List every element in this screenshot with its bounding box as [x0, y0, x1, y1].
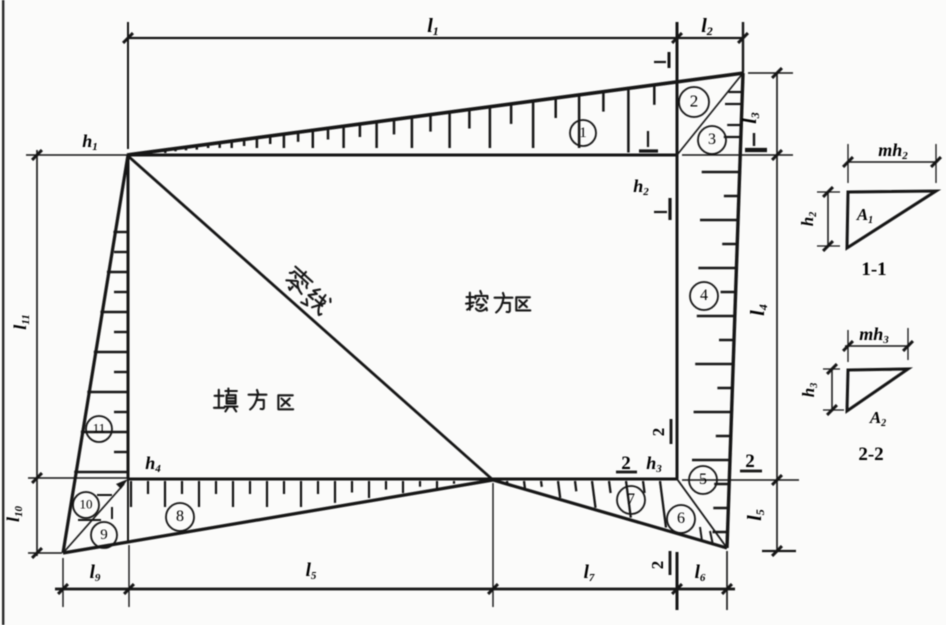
extension line x=63 bottom — [62, 558, 64, 607]
svg-text:l6: l6 — [695, 562, 706, 584]
extension line y=553 left — [28, 552, 62, 554]
zone circle 9 — [91, 522, 117, 548]
svg-text:l5: l5 — [744, 509, 767, 521]
zone circle 6 — [667, 505, 695, 533]
zone circle 3 — [698, 126, 726, 154]
label l10 — [3, 505, 25, 522]
scan border left — [2, 0, 4, 625]
extension line y=551 right — [762, 550, 796, 552]
svg-text:l5: l5 — [306, 560, 317, 582]
ticks on right dimension line — [772, 68, 782, 556]
graded rectangle top edge — [128, 154, 677, 157]
svg-text:6: 6 — [677, 510, 685, 527]
svg-text:h3: h3 — [646, 453, 662, 475]
svg-text:l4: l4 — [747, 304, 770, 316]
ticks on bottom dimension line — [58, 584, 732, 594]
svg-text:3: 3 — [708, 131, 716, 148]
section mark 1 (below h2) — [654, 198, 670, 220]
svg-text:l11: l11 — [10, 314, 32, 329]
zone circle 4 — [690, 282, 718, 310]
section mark 1 (right of top-right corner) — [745, 133, 767, 150]
section detail 1-1 triangle A1 — [847, 191, 936, 248]
extension line x=128 top — [127, 22, 129, 149]
slope hatching zone 1 (top slope) — [146, 86, 654, 156]
svg-text:11: 11 — [93, 420, 106, 435]
svg-text:2: 2 — [649, 428, 668, 437]
svg-text:10: 10 — [80, 496, 93, 511]
slope hatching zone 8 (bottom slope left of zero point) — [131, 481, 454, 507]
graded rectangle right edge — [676, 155, 679, 479]
extension line y=478 left — [28, 477, 127, 479]
extension line y=73 right — [748, 72, 793, 74]
slope hatching zone 6 — [700, 527, 713, 545]
section mark 2 (rotated, above h3) — [649, 419, 671, 444]
left edge extension to toe line — [127, 479, 129, 542]
dimension mh3 — [843, 328, 913, 362]
zone circle 1 — [570, 120, 596, 146]
zone circle 11 — [86, 416, 112, 442]
svg-text:1: 1 — [579, 125, 587, 141]
outer slope toe: right edge — [727, 73, 743, 548]
dimension line l9/l5/l7/l6 (bottom) — [55, 588, 735, 591]
svg-text:h2: h2 — [633, 176, 649, 198]
text 挖方区 (cut area) — [466, 291, 530, 312]
dimension mh2 — [843, 144, 941, 183]
svg-text:2-2: 2-2 — [858, 444, 883, 465]
slope hatching zone 3 (upper right slope) — [724, 92, 742, 137]
svg-text:l2: l2 — [701, 15, 713, 38]
svg-text:l7: l7 — [584, 562, 595, 584]
section detail 2-2 triangle A2 — [847, 369, 908, 411]
section mark 2 (right, near l5) — [740, 451, 762, 472]
zone circle 8 — [166, 503, 194, 531]
section mark 2 (left of h3) — [616, 453, 637, 474]
slope hatching zone 9 — [111, 507, 113, 519]
divider bottom-right corner (zone 5/6) — [677, 479, 727, 548]
svg-text:mh2: mh2 — [878, 140, 908, 162]
outer slope toe: left edge — [63, 155, 128, 553]
svg-text:5: 5 — [699, 471, 707, 488]
extension line y=155 left (h1 underline) — [26, 154, 127, 156]
extension line x=743 top — [742, 22, 744, 72]
dimension line l11/l10 (left) — [36, 150, 38, 556]
divider bottom-left corner with arrow (zone 10/9) — [63, 484, 124, 553]
label h2 rotated (1-1 detail) — [798, 212, 819, 226]
graded rectangle left edge — [127, 155, 130, 479]
svg-text:8: 8 — [176, 508, 184, 525]
extension line y=480 right — [682, 479, 799, 481]
zone circle 10 — [73, 492, 99, 518]
slope hatching zones 4 and 5 (right slope) — [692, 172, 739, 532]
svg-text:h4: h4 — [145, 453, 161, 475]
label l5 right — [744, 509, 767, 521]
extension line x=493 bottom — [492, 483, 494, 607]
section mark 2 (rotated, bottom) — [648, 551, 670, 575]
section mark 1 (below top-right corner) — [639, 131, 658, 151]
svg-text:h1: h1 — [82, 131, 98, 153]
graded rectangle bottom edge — [127, 478, 678, 481]
svg-text:l10: l10 — [3, 505, 25, 522]
zone circle 5 — [689, 466, 717, 494]
extension line x=129 bottom — [128, 545, 130, 607]
ticks on left dimension line — [32, 150, 42, 558]
svg-text:2: 2 — [745, 451, 755, 472]
label h3 rotated (2-2 detail) — [799, 383, 820, 397]
outer slope toe: bottom left segment — [63, 480, 493, 553]
extension line x=727 bottom — [726, 551, 728, 610]
svg-text:mh3: mh3 — [859, 324, 889, 346]
dimension h3 (2-2 detail) — [823, 364, 844, 415]
label l4 — [747, 304, 770, 316]
label l3 — [739, 112, 762, 124]
svg-text:7: 7 — [627, 491, 635, 508]
svg-text:1-1: 1-1 — [861, 259, 886, 280]
svg-text:2: 2 — [648, 561, 667, 570]
slope hatching zone 7 (bottom slope right of zero point) — [507, 481, 666, 528]
dimension h2 (1-1 detail) — [817, 187, 840, 251]
svg-text:9: 9 — [100, 527, 108, 543]
label l11 — [10, 314, 32, 329]
zone circle 2 — [679, 87, 709, 117]
slope hatching zones 11 and 10 (left slope) — [74, 232, 127, 520]
section mark 1 (top, above slope) — [654, 52, 669, 68]
divider top-right corner (zone 2/3) — [677, 73, 743, 155]
svg-text:A1: A1 — [856, 205, 873, 226]
extension line x=677 top — [676, 22, 679, 155]
dimension line l1/l2 (top) — [127, 37, 744, 39]
svg-text:4: 4 — [700, 287, 708, 304]
text 零线 (zero line label), rotated along diagonal — [281, 264, 333, 317]
zero line (TL corner to zero point) — [128, 156, 493, 480]
svg-text:h3: h3 — [799, 383, 820, 397]
extension line y=155 right — [682, 154, 793, 156]
dimension line l3/l4/l5 (right) — [776, 73, 778, 551]
svg-text:2: 2 — [690, 91, 699, 110]
svg-text:A2: A2 — [869, 408, 886, 429]
svg-text:h2: h2 — [798, 212, 819, 226]
svg-text:l1: l1 — [427, 15, 439, 38]
svg-text:l9: l9 — [90, 562, 101, 584]
outer slope toe: bottom right segment — [493, 480, 727, 548]
extension line x=677 bottom — [676, 552, 679, 610]
text 填方区 (fill area) — [214, 389, 293, 412]
outer slope toe: top edge — [127, 73, 744, 155]
ticks on top dimension line — [123, 33, 748, 43]
zone circle 7 — [617, 486, 645, 514]
